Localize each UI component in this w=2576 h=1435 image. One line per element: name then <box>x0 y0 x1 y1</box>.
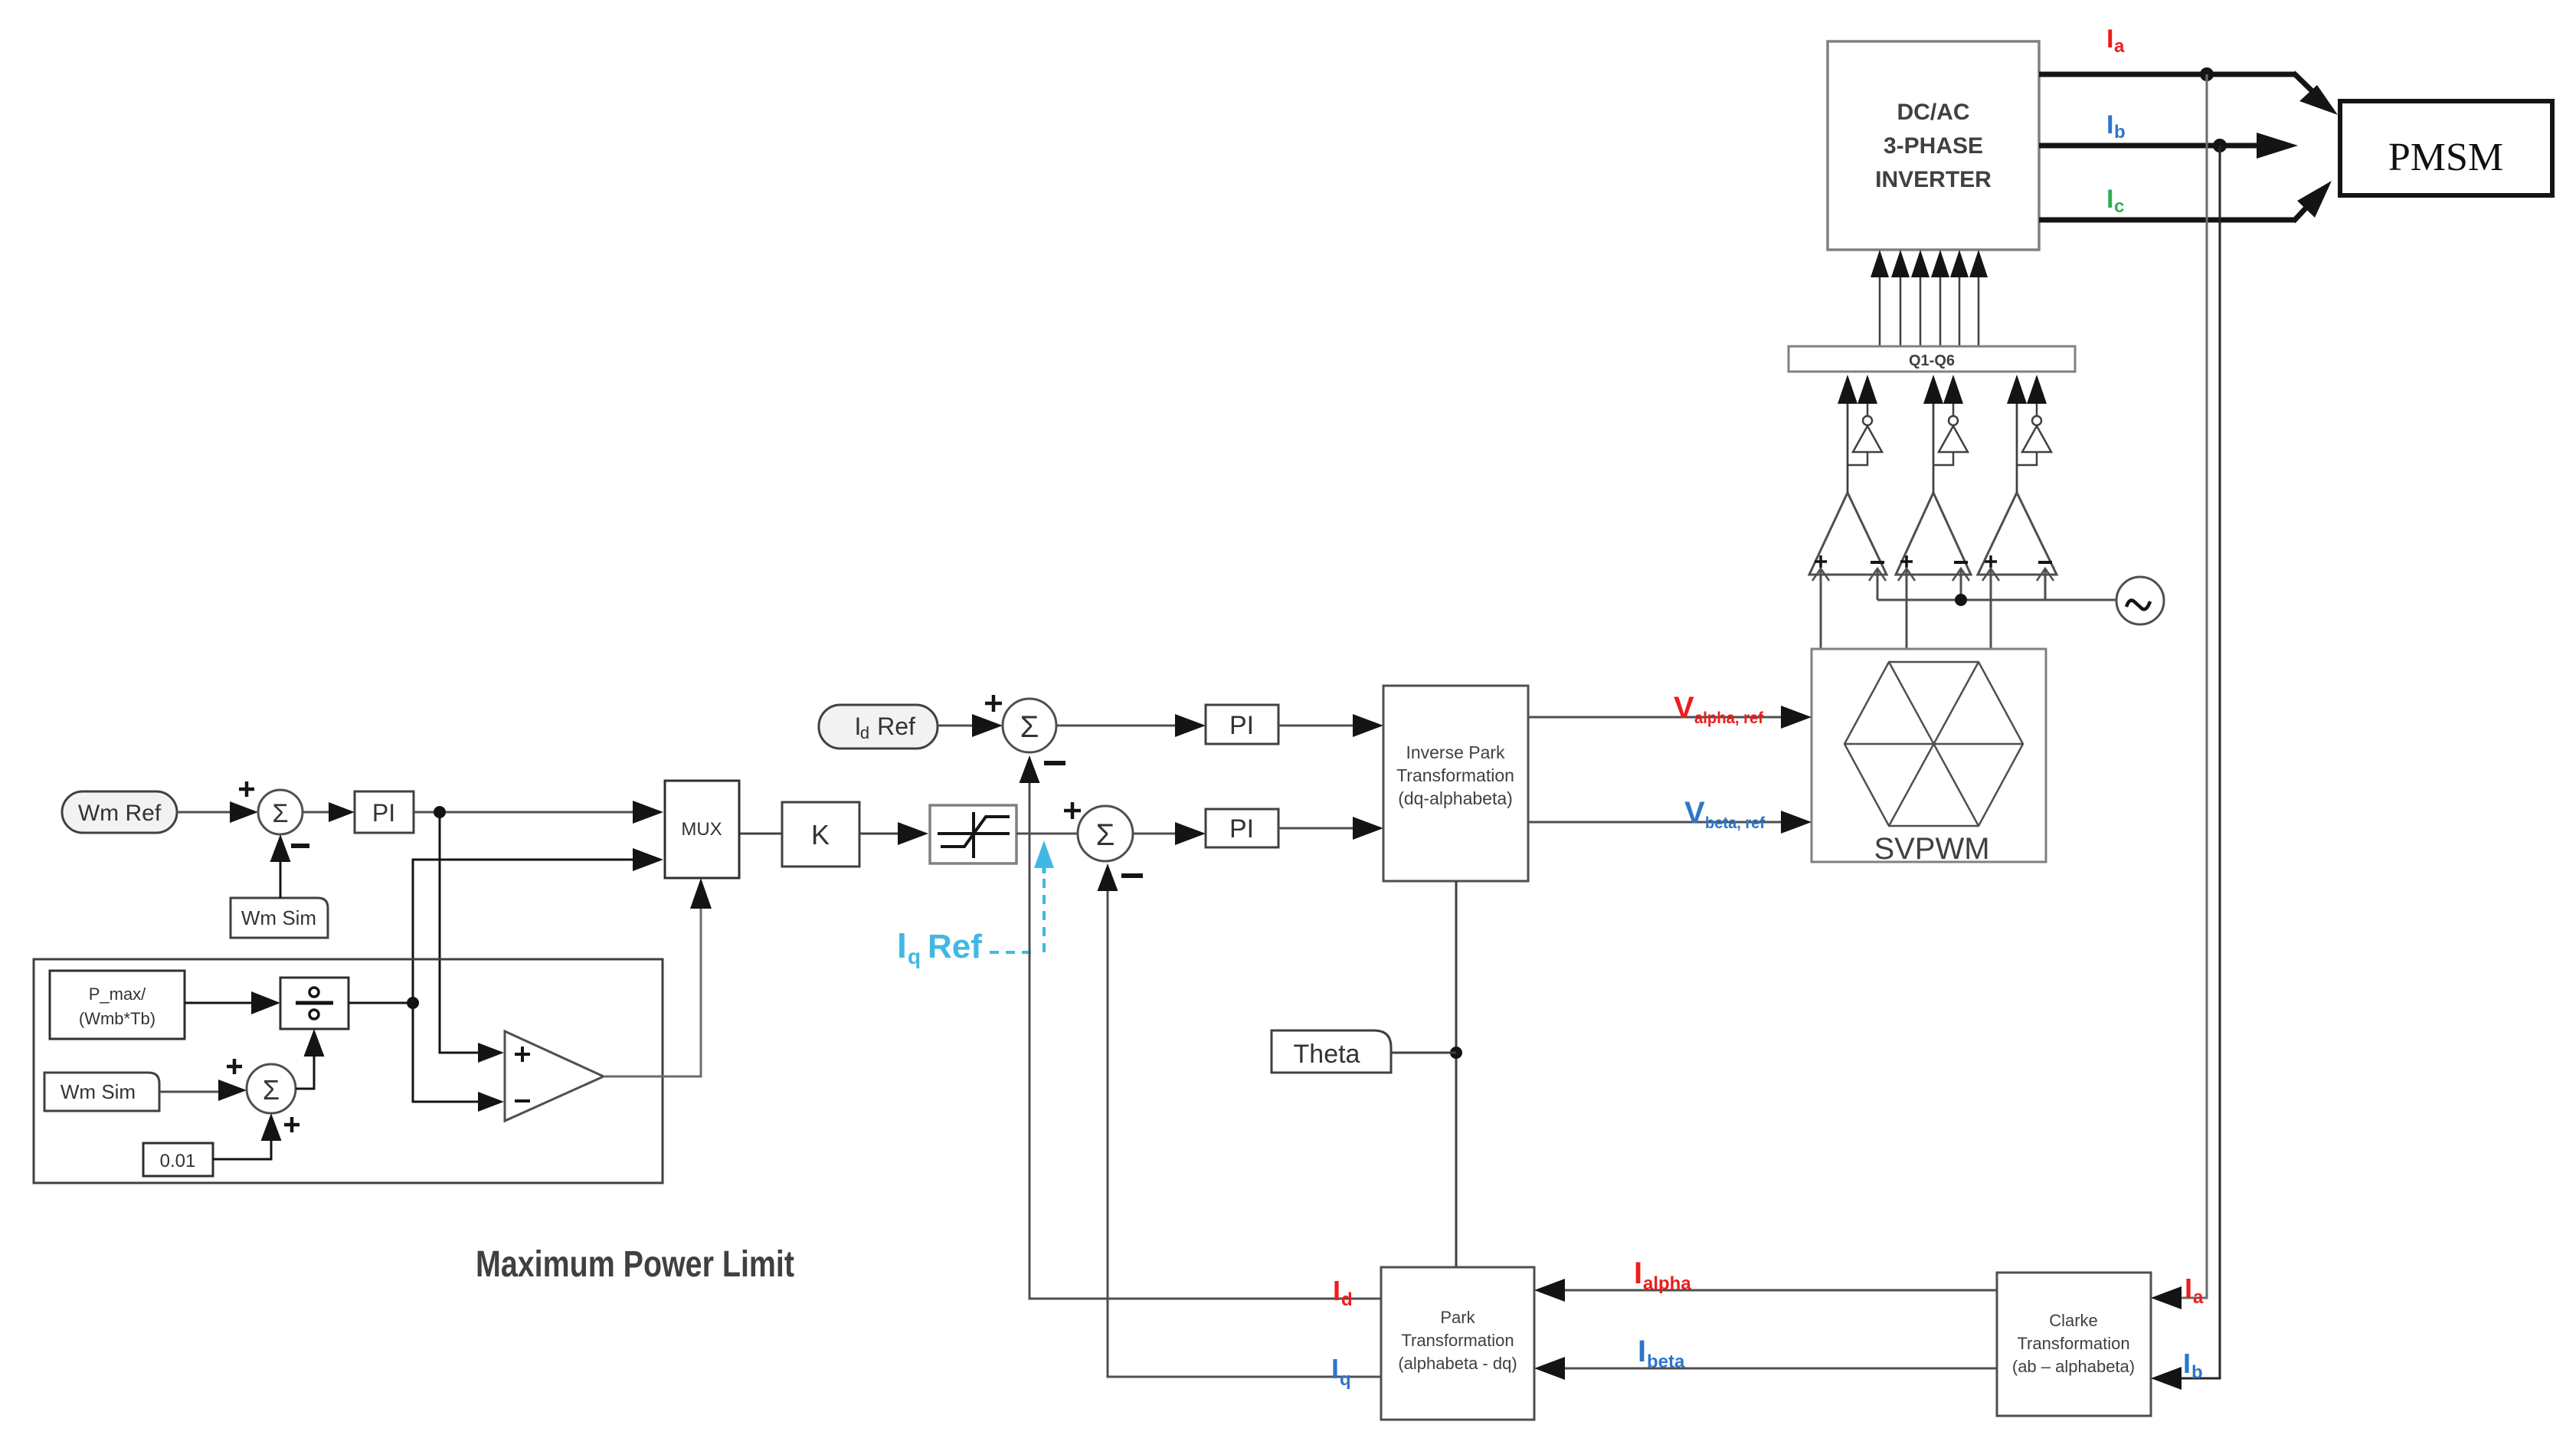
label Ic (top) <box>2106 185 2124 217</box>
svg-text:PI: PI <box>1229 711 1254 740</box>
tag Wm Sim (speed feedback) <box>231 898 328 938</box>
svg-text:I: I <box>1638 1335 1646 1368</box>
block SVPWM <box>1812 649 2046 866</box>
svg-text:a: a <box>2193 1287 2204 1308</box>
svg-text:a: a <box>2114 36 2125 57</box>
wire 0.01 to S4 bottom input <box>213 1113 282 1159</box>
svg-text:P_max/: P_max/ <box>89 985 146 1004</box>
summing junction S4 <box>247 1064 299 1132</box>
svg-text:alpha: alpha <box>1643 1273 1691 1294</box>
svg-text:3-PHASE: 3-PHASE <box>1884 133 1983 159</box>
wire Wm Sim to S1 minus input <box>270 834 291 898</box>
label Iq Ref <box>897 926 982 968</box>
label Ib (bottom) <box>2183 1348 2203 1383</box>
block PI d-axis <box>1206 705 1278 744</box>
wire P_max to divider <box>185 991 280 1014</box>
container Maximum Power Limit subsystem <box>34 959 663 1183</box>
block K gain <box>782 802 859 867</box>
svg-text:Σ: Σ <box>1020 710 1039 744</box>
svg-text:V: V <box>1674 691 1694 725</box>
svg-text:INVERTER: INVERTER <box>1875 167 1992 192</box>
wire Ialpha <box>1534 1279 1997 1302</box>
svg-text:Transformation: Transformation <box>1401 1331 1514 1350</box>
comparator op-amp (torque limit select) <box>505 1031 604 1121</box>
svg-text:Σ: Σ <box>1096 818 1115 852</box>
svg-text:PI: PI <box>1229 814 1254 844</box>
svg-text:b: b <box>2114 122 2126 143</box>
svg-text:b: b <box>2191 1362 2203 1383</box>
label Valpha,ref <box>1674 691 1764 727</box>
svg-text:d: d <box>1341 1289 1353 1310</box>
svg-text:(alphabeta - dq): (alphabeta - dq) <box>1398 1354 1517 1373</box>
svg-text:Transformation: Transformation <box>2017 1334 2129 1353</box>
wire Ibeta <box>1534 1357 1997 1380</box>
svg-text:Σ: Σ <box>263 1074 280 1106</box>
svg-text:alpha, ref: alpha, ref <box>1694 709 1764 727</box>
svg-text:I: I <box>2185 1273 2192 1304</box>
svg-text:Transformation: Transformation <box>1396 765 1514 785</box>
wire carrier distribution line <box>1877 594 2116 606</box>
block Clarke Transformation <box>1997 1273 2151 1416</box>
block Q1-Q6 gate driver bar <box>1789 346 2075 372</box>
label Ia (top) <box>2106 25 2125 57</box>
block MUX <box>665 781 739 878</box>
label Iq <box>1331 1353 1351 1390</box>
comparator input arrows <box>1812 404 2054 649</box>
wire Ia feedback to Clarke <box>2151 74 2207 1309</box>
svg-text:V: V <box>1684 796 1705 830</box>
block PI speed <box>355 791 414 833</box>
carrier oscillator (triangle-wave source) <box>2116 577 2164 624</box>
svg-text:(Wmb*Tb): (Wmb*Tb) <box>79 1009 155 1028</box>
wire S3 to PI (q-axis) <box>1133 822 1206 845</box>
wire S2 to PI (d-axis) <box>1056 714 1206 737</box>
svg-text:beta: beta <box>1647 1351 1685 1372</box>
svg-text:I: I <box>897 926 907 965</box>
svg-text:SVPWM: SVPWM <box>1874 832 1989 866</box>
svg-text:(dq-alphabeta): (dq-alphabeta) <box>1398 788 1513 808</box>
block Inverse Park Transformation <box>1383 686 1528 881</box>
wire Vbeta,ref <box>1528 811 1812 834</box>
saturation block <box>930 805 1016 863</box>
summing junction S3 (q-axis current error) <box>1078 806 1143 876</box>
svg-text:Wm Ref: Wm Ref <box>78 801 162 826</box>
inverter NOT gates for complementary PWM <box>1848 416 2051 465</box>
block Park Transformation <box>1381 1267 1534 1420</box>
wire K to saturation <box>859 822 928 845</box>
wire Ic phase output <box>2039 181 2332 221</box>
label Ialpha <box>1634 1256 1691 1294</box>
svg-text:Wm Sim: Wm Sim <box>61 1080 136 1103</box>
label Ib (top) <box>2106 110 2126 143</box>
summing junction S2 (d-axis current error) <box>985 695 1065 763</box>
svg-text:Theta: Theta <box>1294 1040 1360 1069</box>
svg-text:I: I <box>2106 25 2113 54</box>
label Vbeta,ref <box>1684 796 1766 832</box>
svg-text:I: I <box>2106 110 2113 139</box>
svg-text:I: I <box>2183 1348 2191 1379</box>
wire MUX to K <box>739 833 782 835</box>
tag Id Ref <box>819 705 938 749</box>
svg-text:K: K <box>811 819 830 850</box>
svg-text:Inverse Park: Inverse Park <box>1406 742 1505 762</box>
svg-text:c: c <box>2114 196 2124 217</box>
tag Wm Sim (power calc) <box>44 1073 159 1111</box>
wire divider output <box>349 1002 413 1004</box>
svg-text:I: I <box>2106 185 2113 214</box>
svg-text:Ref: Ref <box>928 928 982 965</box>
wires PWM signal arrows into Q1-Q6 bar <box>1838 375 2047 493</box>
svg-text:PI: PI <box>372 799 395 827</box>
wire Ia phase output <box>2039 67 2338 115</box>
block PI q-axis <box>1206 809 1278 847</box>
wire Wm Ref to summing junction <box>177 801 258 823</box>
tag Theta <box>1272 1030 1456 1073</box>
annotation arrow Iq Ref (dashed cyan) <box>990 840 1054 952</box>
wire comparator output to MUX select <box>604 878 712 1076</box>
wire Id Ref to summing junction <box>938 714 1003 737</box>
tag Wm Ref <box>62 791 177 833</box>
wire Wm Sim to summing junction S4 <box>159 1059 247 1101</box>
svg-text:Maximum Power Limit: Maximum Power Limit <box>476 1244 794 1285</box>
svg-text:Σ: Σ <box>272 799 288 828</box>
svg-text:Clarke: Clarke <box>2049 1311 2098 1330</box>
wires gate drive arrows into inverter <box>1871 250 1988 346</box>
svg-text:d: d <box>860 723 869 742</box>
wire saturation to summing junction S3 <box>1016 802 1081 834</box>
svg-text:Q1-Q6: Q1-Q6 <box>1909 352 1955 369</box>
label Ia (bottom) <box>2185 1273 2204 1308</box>
wire PI to Inverse Park (q-axis) <box>1278 817 1383 840</box>
wire Valpha,ref <box>1528 706 1812 729</box>
svg-text:(ab – alphabeta): (ab – alphabeta) <box>2012 1357 2135 1376</box>
label Ibeta <box>1638 1335 1685 1372</box>
label Id <box>1333 1275 1353 1310</box>
svg-text:DC/AC: DC/AC <box>1897 100 1970 125</box>
svg-text:Wm Sim: Wm Sim <box>241 906 316 929</box>
svg-text:q: q <box>1340 1369 1351 1390</box>
svg-text:0.01: 0.01 <box>160 1151 196 1171</box>
wire torque limit to MUX input 2 and comparator - input <box>407 848 663 1112</box>
wire S4 to divider bottom <box>296 1029 325 1089</box>
wire PI speed to MUX input 1 <box>414 801 663 824</box>
wire theta distribution <box>1450 881 1462 1267</box>
wire Iq feedback <box>1098 863 1382 1377</box>
svg-text:Ref: Ref <box>877 713 915 740</box>
comparators (PWM modulators) <box>1809 493 2057 575</box>
svg-text:I: I <box>1331 1353 1339 1384</box>
svg-text:I: I <box>1333 1275 1340 1306</box>
svg-text:beta, ref: beta, ref <box>1705 814 1766 832</box>
summing junction S1 (speed error) <box>239 781 309 846</box>
svg-text:q: q <box>908 945 921 968</box>
block P_max/(Wmb*Tb) <box>50 971 185 1039</box>
wire Id feedback <box>1020 755 1382 1299</box>
svg-text:Park: Park <box>1440 1308 1475 1327</box>
wire S1 to PI (speed) <box>303 802 355 822</box>
caption Maximum Power Limit <box>476 1244 794 1285</box>
wire PI to Inverse Park (d-axis) <box>1278 714 1383 737</box>
wire Ib phase output <box>2039 133 2298 159</box>
divider block <box>280 978 349 1029</box>
svg-text:MUX: MUX <box>681 819 722 840</box>
svg-text:PMSM: PMSM <box>2388 136 2503 179</box>
block PMSM <box>2340 101 2552 195</box>
block DC/AC 3-phase inverter <box>1828 41 2039 250</box>
block constant 0.01 <box>143 1143 213 1176</box>
wire Ib feedback to Clarke <box>2151 146 2220 1390</box>
svg-text:I: I <box>1634 1256 1642 1290</box>
wire torque demand to comparator + input <box>440 812 504 1063</box>
